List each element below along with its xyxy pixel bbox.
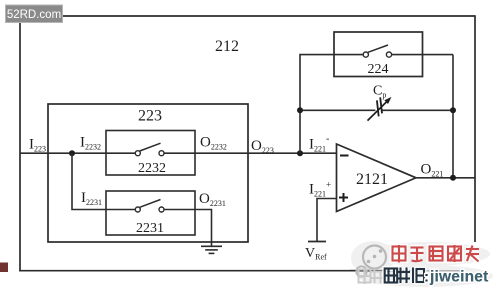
block 212 boundary top edge (19, 15, 475, 17)
wire capacitor row left (300, 109, 375, 111)
wire frame bottom edge redraw over noise (350, 270, 390, 272)
node O221 junction dot (450, 175, 456, 181)
svg-text:52RD.com: 52RD.com (7, 9, 61, 21)
op-amp minus sign (340, 155, 349, 157)
svg-text:O223: O223 (251, 138, 274, 155)
watermark dark wangweixin glyph blocks (385, 268, 424, 284)
svg-text:I2232: I2232 (80, 135, 101, 152)
svg-text:Cp: Cp (373, 84, 386, 100)
switch box 2232 (106, 131, 195, 176)
svg-text:I2231: I2231 (81, 190, 102, 207)
wire branch down to switch 2231 (72, 153, 135, 209)
wire 224 right branch down (452, 55, 454, 178)
block 212 boundary right edge (474, 15, 476, 242)
switch 224 contacts (363, 52, 368, 57)
op-amp plus sign (339, 193, 348, 202)
block 212 boundary left edge (19, 15, 21, 271)
VRef terminal bar (308, 241, 326, 243)
watermark 52RD.com (6, 5, 63, 23)
svg-text:I221-: I221- (309, 134, 329, 154)
switch 2231 contacts (135, 207, 140, 212)
wire plus input from VRef (317, 199, 337, 242)
switch 2232 contacts (135, 151, 140, 156)
svg-text:223: 223 (138, 108, 162, 125)
block 212 boundary bottom edge (19, 270, 468, 272)
switch 224 lever (368, 45, 388, 52)
watermark circle logo (356, 246, 386, 277)
svg-text:224: 224 (368, 62, 389, 77)
svg-text:2232: 2232 (138, 161, 166, 176)
svg-text:jiweinet: jiweinet (429, 269, 488, 286)
ground symbol below box 223 (201, 246, 222, 253)
watermark grey jiwei glyph blocks (359, 268, 384, 284)
svg-text:212: 212 (215, 38, 239, 55)
watermark maroon block bottom-left (0, 263, 8, 273)
svg-text::: : (424, 269, 429, 286)
watermark jiweinet text (424, 269, 488, 286)
capacitor Cp plates (377, 97, 382, 116)
svg-text:O2232: O2232 (200, 135, 227, 152)
wire switch 2232 output to op-amp minus input (164, 152, 337, 154)
node input junction dot (69, 150, 75, 156)
svg-text:O221: O221 (421, 162, 444, 179)
wire 224 left branch down (300, 55, 334, 154)
svg-text:I223: I223 (29, 137, 46, 154)
switch 2232 lever (140, 143, 161, 151)
switch box 2231 (106, 191, 195, 235)
watermark noise smudges (351, 241, 493, 287)
wire I223 input (frame to switch 2232) (20, 152, 135, 154)
node O223 junction dot (297, 150, 303, 156)
watermark dark wangweixin halo (385, 268, 424, 284)
svg-text:VRef: VRef (305, 246, 327, 262)
wire switch 2231 output to ground (164, 210, 212, 247)
node capacitor left dot (297, 107, 303, 113)
wire capacitor row right (382, 109, 453, 111)
op-amp U2121 triangle (337, 144, 417, 212)
wire op-amp output O221 (416, 177, 475, 179)
watermark red text halo (393, 245, 480, 263)
watermark red text dianzifashaoyou glyph blocks (393, 245, 480, 263)
switch 2231 lever (140, 200, 161, 208)
capacitor Cp variable arrow (368, 99, 390, 120)
block 223 box (48, 104, 248, 242)
svg-text:O2231: O2231 (199, 191, 226, 208)
svg-text:2231: 2231 (136, 221, 164, 236)
svg-text:I221+: I221+ (309, 180, 331, 199)
svg-text:2121: 2121 (356, 171, 388, 188)
wire 224 left lead (334, 54, 363, 56)
switch box 224 (334, 32, 423, 77)
wire 224 right lead (392, 54, 453, 56)
node capacitor right dot (450, 107, 456, 113)
